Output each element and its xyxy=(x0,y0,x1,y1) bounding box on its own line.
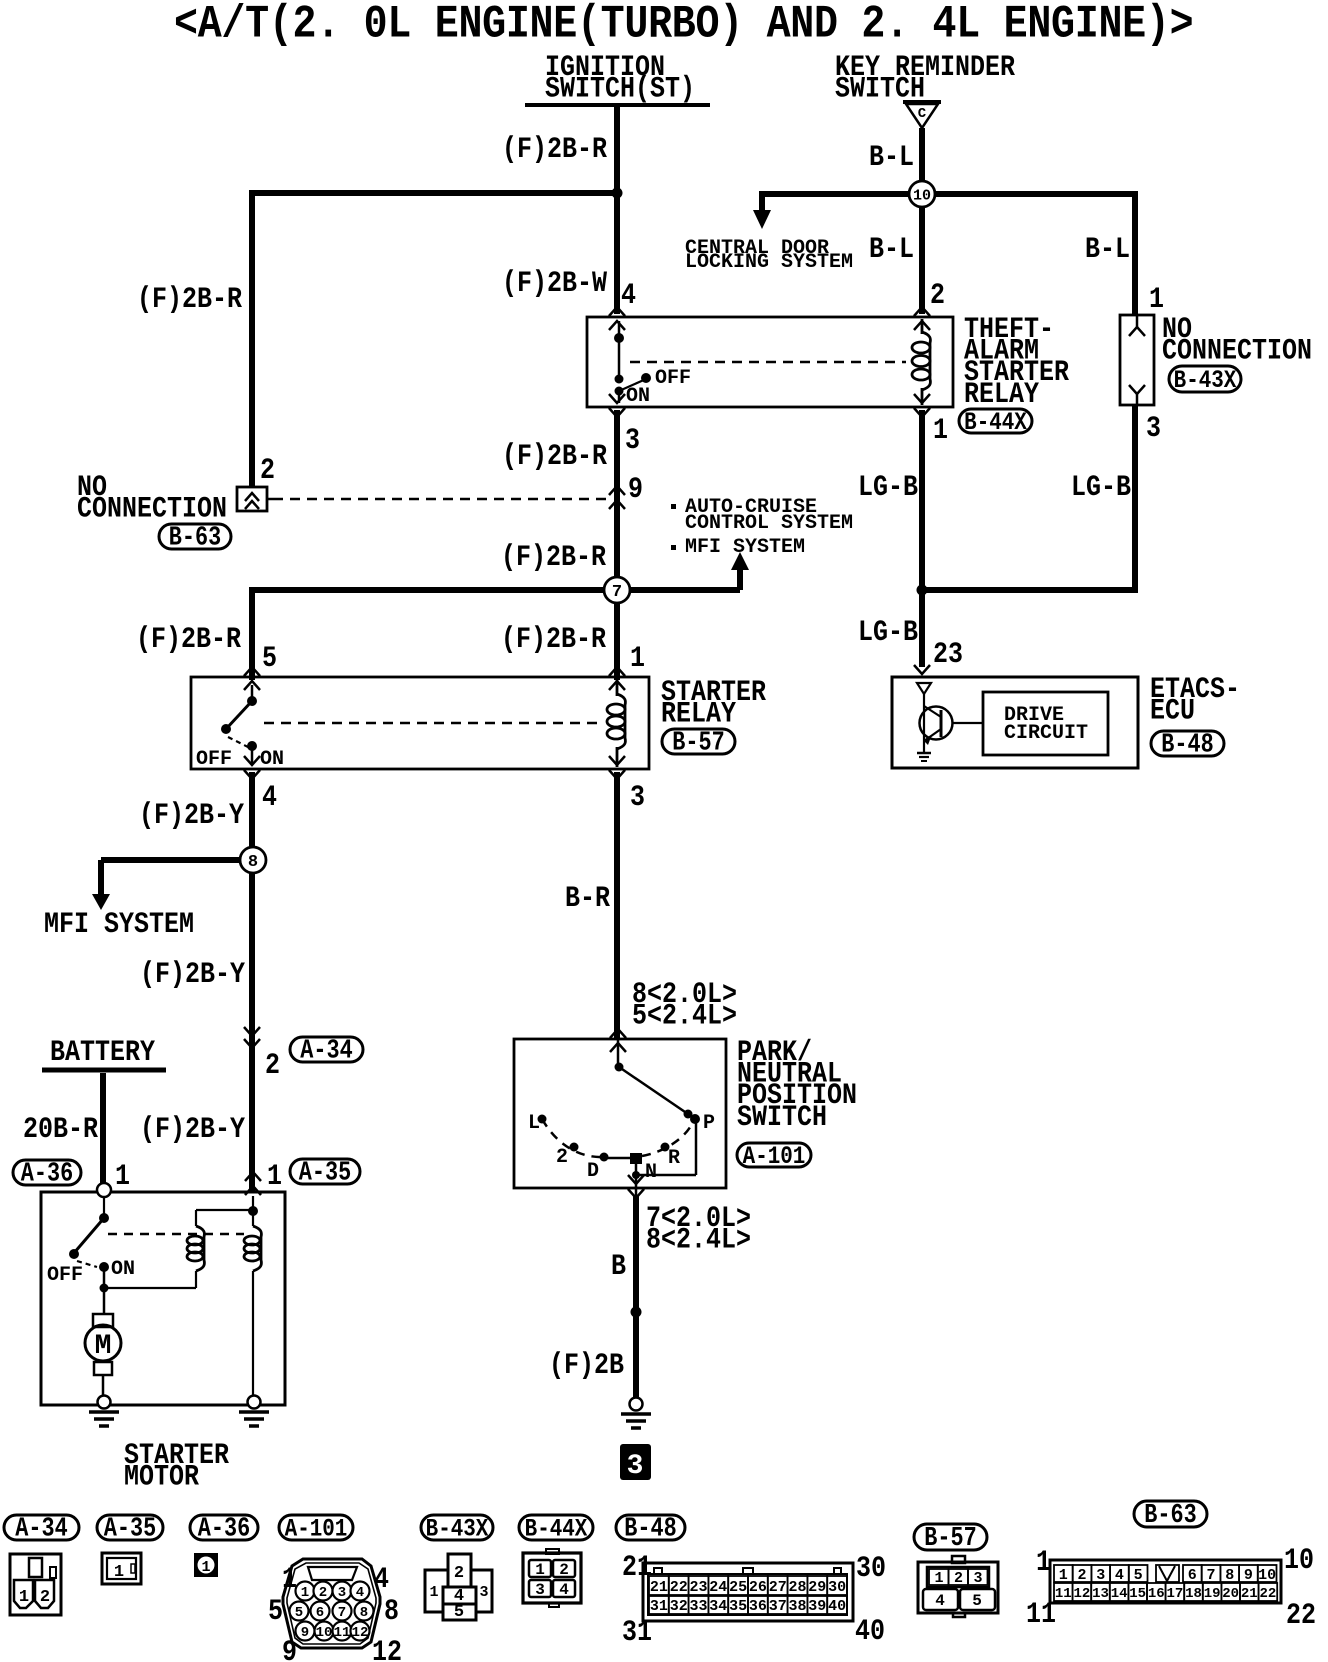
svg-text:B-57: B-57 xyxy=(924,1524,976,1553)
svg-text:35: 35 xyxy=(729,1598,747,1615)
svg-text:5: 5 xyxy=(972,1592,982,1610)
svg-text:7: 7 xyxy=(338,1605,346,1621)
svg-text:9: 9 xyxy=(301,1625,309,1641)
svg-text:18: 18 xyxy=(1185,1586,1202,1602)
svg-text:C: C xyxy=(918,106,927,122)
svg-text:8: 8 xyxy=(1225,1567,1234,1584)
svg-text:11: 11 xyxy=(334,1625,351,1641)
svg-text:22: 22 xyxy=(1259,1586,1276,1602)
svg-text:1: 1 xyxy=(429,1584,438,1601)
svg-text:32: 32 xyxy=(670,1598,688,1615)
svg-text:26: 26 xyxy=(749,1579,767,1596)
svg-text:7: 7 xyxy=(1206,1567,1215,1584)
svg-text:B-48: B-48 xyxy=(1161,731,1213,760)
svg-text:A-36: A-36 xyxy=(198,1515,250,1544)
svg-text:4: 4 xyxy=(356,1585,364,1601)
svg-text:10: 10 xyxy=(913,187,931,204)
svg-text:A-35: A-35 xyxy=(299,1159,351,1188)
svg-text:21: 21 xyxy=(650,1579,668,1596)
svg-text:A-36: A-36 xyxy=(21,1160,73,1189)
svg-text:11: 11 xyxy=(1055,1586,1072,1602)
svg-text:2: 2 xyxy=(1077,1567,1086,1584)
svg-text:7: 7 xyxy=(612,583,622,602)
svg-text:4: 4 xyxy=(559,1581,569,1599)
svg-text:B-63: B-63 xyxy=(1144,1501,1196,1530)
svg-text:A-101: A-101 xyxy=(285,1515,348,1543)
svg-text:3: 3 xyxy=(973,1570,982,1587)
svg-text:29: 29 xyxy=(808,1579,826,1596)
svg-text:3: 3 xyxy=(1096,1567,1105,1584)
svg-text:3: 3 xyxy=(338,1585,346,1601)
svg-text:A-34: A-34 xyxy=(300,1037,352,1066)
svg-text:31: 31 xyxy=(650,1598,668,1615)
svg-text:36: 36 xyxy=(749,1598,767,1615)
svg-text:37: 37 xyxy=(769,1598,787,1615)
svg-text:2: 2 xyxy=(454,1564,464,1583)
svg-text:2: 2 xyxy=(319,1585,327,1601)
svg-text:33: 33 xyxy=(689,1598,707,1615)
svg-text:19: 19 xyxy=(1204,1586,1221,1602)
svg-text:28: 28 xyxy=(788,1579,806,1596)
svg-text:6: 6 xyxy=(316,1605,324,1621)
svg-text:A-34: A-34 xyxy=(15,1515,67,1544)
svg-text:39: 39 xyxy=(808,1598,826,1615)
svg-text:1: 1 xyxy=(301,1585,309,1601)
svg-text:3: 3 xyxy=(479,1584,488,1601)
svg-text:B-57: B-57 xyxy=(672,729,724,758)
svg-text:38: 38 xyxy=(788,1598,806,1615)
svg-text:20: 20 xyxy=(1222,1586,1239,1602)
svg-text:3: 3 xyxy=(627,1451,644,1482)
svg-text:17: 17 xyxy=(1166,1586,1183,1602)
svg-text:15: 15 xyxy=(1129,1586,1146,1602)
svg-text:A-101: A-101 xyxy=(743,1142,806,1170)
svg-text:5: 5 xyxy=(454,1603,464,1622)
svg-text:B-43X: B-43X xyxy=(1174,366,1237,394)
svg-text:40: 40 xyxy=(828,1598,846,1615)
svg-text:1: 1 xyxy=(114,1563,124,1582)
svg-text:B-63: B-63 xyxy=(169,524,221,553)
svg-text:21: 21 xyxy=(1241,1586,1258,1602)
svg-text:25: 25 xyxy=(729,1579,747,1596)
svg-text:12: 12 xyxy=(1073,1586,1090,1602)
svg-text:M: M xyxy=(95,1331,112,1362)
svg-text:2: 2 xyxy=(954,1570,963,1587)
svg-text:8: 8 xyxy=(360,1605,368,1621)
svg-text:24: 24 xyxy=(709,1579,727,1596)
svg-text:4: 4 xyxy=(935,1592,945,1610)
svg-text:8: 8 xyxy=(248,853,258,872)
svg-text:B-48: B-48 xyxy=(624,1515,676,1544)
svg-text:13: 13 xyxy=(1092,1586,1109,1602)
svg-text:5: 5 xyxy=(1134,1567,1143,1584)
svg-text:1: 1 xyxy=(201,1559,210,1576)
svg-text:3: 3 xyxy=(535,1581,545,1599)
svg-text:A-35: A-35 xyxy=(104,1515,156,1544)
svg-text:1: 1 xyxy=(1059,1567,1068,1584)
svg-text:2: 2 xyxy=(559,1561,569,1579)
svg-text:34: 34 xyxy=(709,1598,727,1615)
svg-text:22: 22 xyxy=(670,1579,688,1596)
svg-text:B-43X: B-43X xyxy=(426,1515,489,1543)
svg-text:16: 16 xyxy=(1148,1586,1165,1602)
svg-text:14: 14 xyxy=(1111,1586,1128,1602)
svg-text:23: 23 xyxy=(689,1579,707,1596)
svg-text:10: 10 xyxy=(316,1625,333,1641)
svg-text:12: 12 xyxy=(352,1625,369,1641)
svg-text:1: 1 xyxy=(934,1570,943,1587)
svg-text:6: 6 xyxy=(1188,1567,1197,1584)
svg-text:4: 4 xyxy=(1115,1567,1124,1584)
svg-text:27: 27 xyxy=(769,1579,787,1596)
svg-text:9: 9 xyxy=(1244,1567,1253,1584)
svg-text:2: 2 xyxy=(40,1588,50,1607)
svg-text:B-44X: B-44X xyxy=(964,408,1027,436)
svg-text:5: 5 xyxy=(295,1605,303,1621)
svg-text:1: 1 xyxy=(535,1561,545,1579)
svg-text:30: 30 xyxy=(828,1579,846,1596)
svg-text:B-44X: B-44X xyxy=(525,1515,588,1543)
svg-text:1: 1 xyxy=(19,1588,29,1607)
svg-text:10: 10 xyxy=(1258,1567,1276,1584)
